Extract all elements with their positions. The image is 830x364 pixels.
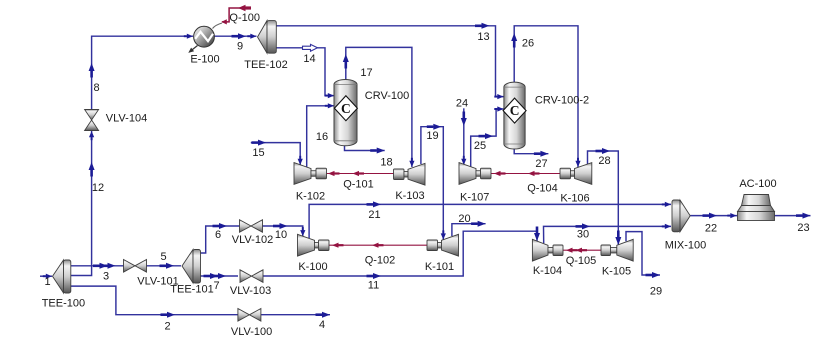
- svg-text:28: 28: [598, 155, 610, 167]
- svg-text:Q-100: Q-100: [229, 12, 260, 24]
- svg-text:CRV-100-2: CRV-100-2: [535, 95, 589, 107]
- svg-text:5: 5: [160, 251, 166, 263]
- svg-text:4: 4: [319, 319, 325, 331]
- svg-text:VLV-102: VLV-102: [232, 234, 273, 246]
- svg-text:19: 19: [426, 130, 438, 142]
- svg-text:K-107: K-107: [460, 192, 489, 204]
- svg-text:27: 27: [535, 158, 547, 170]
- svg-text:Q-101: Q-101: [343, 179, 374, 191]
- svg-text:7: 7: [213, 280, 219, 292]
- svg-text:K-103: K-103: [395, 190, 424, 202]
- svg-text:C: C: [341, 101, 351, 116]
- svg-text:VLV-104: VLV-104: [106, 113, 147, 125]
- svg-text:Q-104: Q-104: [527, 183, 558, 195]
- svg-text:23: 23: [797, 222, 809, 234]
- svg-text:C: C: [510, 103, 520, 118]
- svg-text:Q-102: Q-102: [365, 255, 396, 267]
- svg-text:9: 9: [237, 41, 243, 53]
- svg-text:17: 17: [360, 67, 372, 79]
- svg-text:29: 29: [650, 286, 662, 298]
- svg-text:26: 26: [522, 38, 534, 50]
- svg-text:21: 21: [368, 209, 380, 221]
- svg-text:15: 15: [252, 147, 264, 159]
- svg-text:E-100: E-100: [190, 54, 219, 66]
- svg-text:VLV-103: VLV-103: [230, 285, 271, 297]
- svg-text:AC-100: AC-100: [739, 178, 776, 190]
- svg-text:18: 18: [380, 157, 392, 169]
- svg-text:25: 25: [474, 140, 486, 152]
- svg-text:2: 2: [164, 321, 170, 333]
- svg-text:TEE-102: TEE-102: [244, 59, 287, 71]
- svg-text:3: 3: [103, 271, 109, 283]
- svg-text:30: 30: [577, 229, 589, 241]
- svg-text:Q-105: Q-105: [566, 255, 597, 267]
- svg-text:VLV-100: VLV-100: [231, 326, 272, 338]
- svg-text:16: 16: [316, 131, 328, 143]
- svg-text:6: 6: [215, 229, 221, 241]
- svg-text:MIX-100: MIX-100: [665, 240, 707, 252]
- svg-text:12: 12: [92, 182, 104, 194]
- svg-text:24: 24: [456, 98, 468, 110]
- svg-text:10: 10: [275, 229, 287, 241]
- svg-text:1: 1: [44, 276, 50, 288]
- svg-text:14: 14: [303, 53, 315, 65]
- svg-text:K-105: K-105: [602, 266, 631, 278]
- svg-text:K-102: K-102: [296, 191, 325, 203]
- svg-text:K-106: K-106: [560, 193, 589, 205]
- svg-text:13: 13: [477, 31, 489, 43]
- svg-text:22: 22: [705, 223, 717, 235]
- svg-text:CRV-100: CRV-100: [365, 90, 409, 102]
- svg-text:K-100: K-100: [298, 261, 327, 273]
- svg-text:TEE-101: TEE-101: [170, 284, 213, 296]
- svg-text:K-101: K-101: [425, 261, 454, 273]
- svg-text:20: 20: [458, 213, 470, 225]
- svg-text:K-104: K-104: [533, 265, 562, 277]
- svg-text:TEE-100: TEE-100: [42, 298, 85, 310]
- svg-text:11: 11: [368, 280, 379, 292]
- svg-text:8: 8: [93, 82, 99, 94]
